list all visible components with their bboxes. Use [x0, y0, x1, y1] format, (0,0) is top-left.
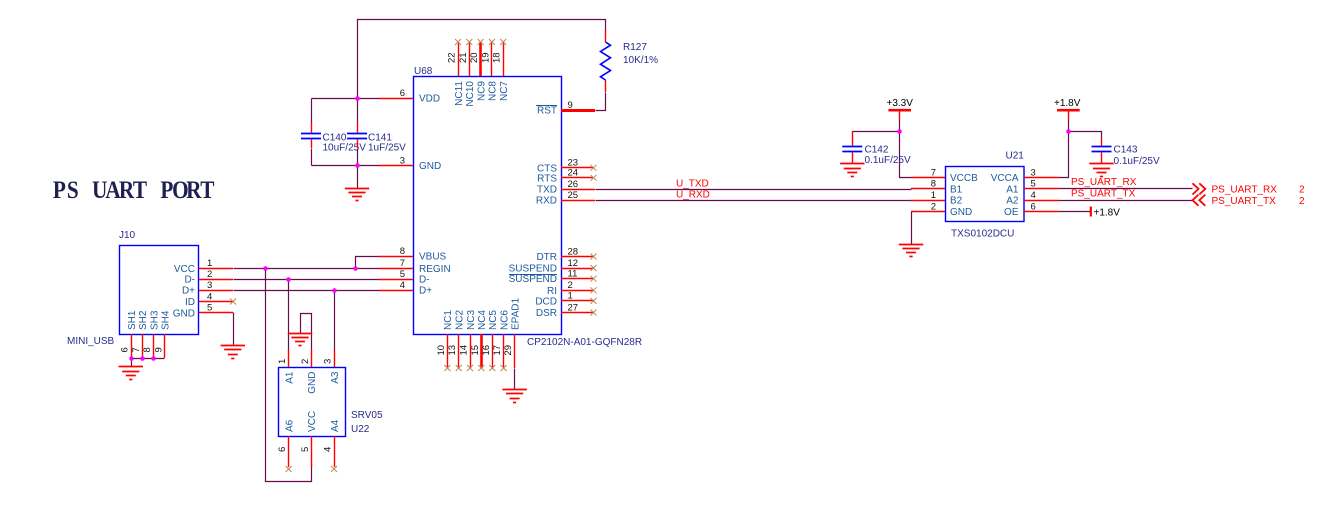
svg-text:OE: OE: [1004, 207, 1019, 218]
wire VCC to SRV05 pin5: [266, 269, 312, 482]
svg-text:ID: ID: [185, 297, 195, 308]
svg-text:6: 6: [277, 447, 288, 452]
power +1.8V at OE: [1091, 207, 1120, 219]
svg-text:A1: A1: [1006, 184, 1019, 195]
wire +3.3V to C142: [853, 131, 900, 133]
wire EPAD to ground: [514, 369, 516, 390]
wire net D+ J10 to U68: [234, 290, 380, 292]
svg-text:10uF/25V: 10uF/25V: [323, 143, 367, 154]
svg-text:3: 3: [400, 155, 405, 166]
svg-text:8: 8: [931, 179, 936, 190]
wire J10 shield tie: [132, 358, 165, 360]
junction SH1: [129, 356, 134, 361]
wire +1.8V to VCCA: [1059, 120, 1069, 178]
wire J10 GND pin to ground: [233, 313, 235, 346]
wire SRV05 GND pin2 to ground: [301, 314, 312, 351]
svg-text:9: 9: [153, 347, 164, 352]
svg-text:REGIN: REGIN: [419, 264, 451, 275]
ground U68 EPAD: [502, 390, 526, 403]
junction REGIN/VBUS: [353, 266, 358, 271]
svg-text:PS_UART_TX: PS_UART_TX: [1212, 196, 1277, 207]
svg-text:10: 10: [436, 345, 447, 356]
wire net U_RXD: [596, 200, 912, 202]
capacitor C141 1uF/25V: [347, 122, 406, 154]
svg-text:A3: A3: [330, 371, 341, 384]
svg-text:C142: C142: [865, 145, 889, 156]
svg-text:PSUARTPORT: PSUARTPORT: [53, 176, 215, 204]
svg-text:GND: GND: [419, 161, 441, 172]
svg-text:RXD: RXD: [536, 196, 557, 207]
svg-text:28: 28: [568, 246, 579, 257]
svg-text:5: 5: [207, 303, 212, 314]
ground under C140/C141: [345, 189, 369, 201]
svg-text:NC5: NC5: [488, 310, 499, 330]
svg-text:J10: J10: [119, 230, 136, 241]
junction +3.3V: [897, 129, 902, 134]
svg-text:25: 25: [568, 190, 579, 201]
wire net PS_UART_TX: [1059, 200, 1193, 202]
svg-text:DTR: DTR: [536, 252, 557, 263]
svg-text:3: 3: [1031, 167, 1036, 178]
TVS diode array U22 SRV05: [277, 350, 383, 472]
svg-text:6: 6: [120, 347, 131, 352]
junction VDD: [355, 96, 360, 101]
ground SRV05: [288, 334, 312, 346]
capacitor C142 0.1uF/25V: [842, 131, 911, 166]
svg-text:B2: B2: [950, 196, 963, 207]
power +3.3V: [887, 98, 914, 120]
svg-text:3: 3: [207, 280, 212, 291]
svg-text:GND: GND: [173, 308, 195, 319]
svg-text:TXS0102DCU: TXS0102DCU: [951, 229, 1014, 240]
IC U68 CP2102N-A01-GQFN28R: [379, 39, 642, 371]
svg-text:10K/1%: 10K/1%: [623, 55, 658, 66]
svg-text:R127: R127: [623, 42, 647, 53]
svg-text:4: 4: [1031, 190, 1036, 201]
svg-text:SH4: SH4: [161, 310, 172, 330]
svg-text:18: 18: [492, 52, 503, 63]
wire C141 top lead: [357, 99, 359, 123]
wire +1.8V to C143: [1069, 132, 1102, 139]
svg-text:DCD: DCD: [535, 296, 557, 307]
svg-text:NC9: NC9: [476, 81, 487, 101]
ground J10 shield: [119, 367, 143, 380]
svg-text:0.1uF/25V: 0.1uF/25V: [1114, 156, 1160, 167]
svg-text:GND: GND: [950, 207, 972, 218]
svg-text:MINI_USB: MINI_USB: [67, 336, 115, 347]
svg-text:2: 2: [1299, 185, 1305, 196]
svg-text:3: 3: [323, 359, 334, 364]
svg-text:RI: RI: [547, 286, 557, 297]
svg-text:1: 1: [277, 359, 288, 364]
svg-text:A6: A6: [284, 419, 295, 432]
svg-text:5: 5: [400, 269, 405, 280]
connector J10 MINI_USB: [67, 230, 236, 358]
wire shield to ground: [131, 359, 133, 367]
svg-text:NC4: NC4: [477, 310, 488, 330]
svg-text:7: 7: [131, 347, 142, 352]
svg-text:SUSPEND: SUSPEND: [509, 264, 557, 275]
svg-text:VCC: VCC: [174, 264, 195, 275]
svg-text:VDD: VDD: [419, 94, 440, 105]
svg-text:7: 7: [931, 167, 936, 178]
off-page connector PS_UART_TX: [1193, 195, 1206, 206]
power +1.8V: [1054, 98, 1081, 120]
junction D-: [286, 277, 291, 282]
svg-text:A2: A2: [1006, 196, 1019, 207]
svg-text:6: 6: [1031, 201, 1036, 212]
svg-text:U_RXD: U_RXD: [676, 190, 710, 201]
svg-text:U_TXD: U_TXD: [676, 178, 709, 189]
junction VCC/SRV05: [263, 266, 268, 271]
svg-text:NC11: NC11: [454, 81, 465, 106]
svg-text:5: 5: [300, 447, 311, 452]
svg-text:17: 17: [492, 345, 503, 356]
svg-text:12: 12: [568, 258, 579, 269]
junction SH2: [140, 356, 145, 361]
junction D+: [332, 288, 337, 293]
svg-text:26: 26: [568, 179, 579, 190]
off-page connector PS_UART_RX: [1193, 183, 1206, 194]
capacitor C140 10uF/25V: [301, 122, 366, 154]
svg-text:D+: D+: [182, 286, 195, 297]
svg-text:8: 8: [142, 347, 153, 352]
svg-text:PS_UART_RX: PS_UART_RX: [1071, 177, 1137, 188]
ground U21: [899, 245, 923, 257]
wire C141 bottom to ground: [357, 149, 359, 189]
svg-text:TXD: TXD: [537, 185, 557, 196]
svg-text:1: 1: [207, 258, 212, 269]
junction +1.8V: [1066, 129, 1071, 134]
wire OE to +1.8V: [1059, 211, 1091, 213]
svg-text:1: 1: [931, 190, 936, 201]
svg-text:+1.8V: +1.8V: [1054, 98, 1081, 109]
ground J10 GND: [221, 346, 245, 359]
svg-text:C143: C143: [1114, 145, 1138, 156]
wire VBUS branch: [356, 257, 380, 269]
svg-text:29: 29: [503, 345, 514, 356]
ground C142: [840, 164, 864, 177]
svg-text:DSR: DSR: [536, 308, 557, 319]
junction SH3: [151, 356, 156, 361]
svg-text:2: 2: [1299, 196, 1305, 207]
wire D- to SRV05 A1: [288, 280, 290, 351]
svg-text:NC3: NC3: [466, 310, 477, 330]
svg-text:NC1: NC1: [443, 310, 454, 330]
junction GND: [355, 163, 360, 168]
svg-text:1uF/25V: 1uF/25V: [368, 143, 406, 154]
svg-text:14: 14: [459, 345, 470, 356]
svg-text:PS_UART_TX: PS_UART_TX: [1071, 188, 1136, 199]
svg-text:VCC: VCC: [307, 411, 318, 432]
svg-text:11: 11: [568, 269, 578, 280]
svg-text:27: 27: [568, 302, 579, 313]
svg-text:4: 4: [207, 291, 212, 302]
wire net PS_UART_RX: [1059, 188, 1193, 190]
svg-text:B1: B1: [950, 184, 963, 195]
svg-text:+3.3V: +3.3V: [887, 98, 914, 109]
svg-text:19: 19: [480, 52, 491, 63]
svg-text:NC6: NC6: [499, 310, 510, 330]
svg-text:RTS: RTS: [537, 173, 557, 184]
svg-text:8: 8: [400, 246, 405, 257]
svg-text:GND: GND: [307, 372, 318, 394]
ground C143: [1089, 164, 1113, 177]
wire VDD left branch: [312, 98, 380, 100]
svg-text:2: 2: [207, 269, 212, 280]
svg-text:6: 6: [400, 88, 405, 99]
svg-text:A4: A4: [330, 419, 341, 432]
wire net VCC J10 to REGIN: [234, 268, 380, 270]
svg-text:15: 15: [470, 345, 481, 356]
svg-text:CP2102N-A01-GQFN28R: CP2102N-A01-GQFN28R: [527, 337, 642, 348]
wire GND net to U68 pin 3: [312, 165, 380, 167]
svg-text:EPAD1: EPAD1: [510, 298, 521, 330]
svg-text:NC7: NC7: [499, 81, 510, 101]
IC U21 TXS0102DCU: [911, 151, 1059, 240]
svg-text:NC8: NC8: [488, 81, 499, 101]
svg-text:VBUS: VBUS: [419, 252, 447, 263]
svg-text:2: 2: [568, 280, 573, 291]
svg-text:SRV05: SRV05: [351, 410, 383, 421]
svg-text:16: 16: [481, 345, 492, 356]
svg-text:+1.8V: +1.8V: [1094, 207, 1121, 218]
svg-text:0.1uF/25V: 0.1uF/25V: [865, 155, 911, 166]
svg-text:SUSPEND: SUSPEND: [509, 274, 557, 285]
svg-text:5: 5: [1031, 179, 1036, 190]
svg-text:9: 9: [568, 100, 573, 111]
svg-text:VCCB: VCCB: [950, 173, 978, 184]
svg-text:SH2: SH2: [138, 310, 149, 330]
svg-text:2: 2: [931, 201, 936, 212]
svg-text:7: 7: [400, 258, 405, 269]
wire +3.3V to VCCB: [900, 120, 912, 178]
svg-text:21: 21: [458, 52, 469, 63]
svg-text:NC2: NC2: [455, 310, 466, 330]
svg-text:4: 4: [323, 447, 334, 452]
svg-text:SH3: SH3: [149, 310, 160, 330]
svg-text:VCCA: VCCA: [991, 173, 1019, 184]
wire VDD net to R127 top: [358, 20, 606, 99]
svg-text:SH1: SH1: [127, 310, 138, 330]
svg-text:D-: D-: [184, 275, 195, 286]
wire C140 bottom lead: [311, 149, 313, 166]
svg-text:13: 13: [447, 345, 458, 356]
svg-text:2: 2: [300, 359, 311, 364]
svg-text:PS_UART_RX: PS_UART_RX: [1212, 185, 1278, 196]
svg-text:A1: A1: [284, 371, 295, 384]
wire D+ to SRV05 A3: [334, 291, 336, 351]
svg-text:20: 20: [469, 52, 480, 63]
svg-text:22: 22: [447, 52, 458, 63]
svg-text:U21: U21: [1006, 151, 1025, 162]
svg-text:4: 4: [400, 280, 405, 291]
wire R127 bottom to RST pin: [596, 93, 606, 111]
wire net D- J10 to U68: [234, 279, 380, 281]
svg-text:1: 1: [568, 291, 573, 302]
svg-text:U68: U68: [414, 66, 433, 77]
svg-text:U22: U22: [351, 424, 370, 435]
wire C140 top lead: [311, 99, 313, 123]
resistor R127 10K/1%: [601, 30, 659, 92]
wire U21 GND to ground: [911, 212, 913, 245]
svg-text:RST: RST: [537, 106, 557, 117]
wire net U_TXD: [596, 189, 912, 191]
svg-text:NC10: NC10: [465, 81, 476, 107]
svg-text:D-: D-: [419, 275, 430, 286]
svg-text:24: 24: [568, 168, 579, 179]
capacitor C143 0.1uF/25V: [1092, 138, 1160, 167]
svg-text:D+: D+: [419, 286, 432, 297]
